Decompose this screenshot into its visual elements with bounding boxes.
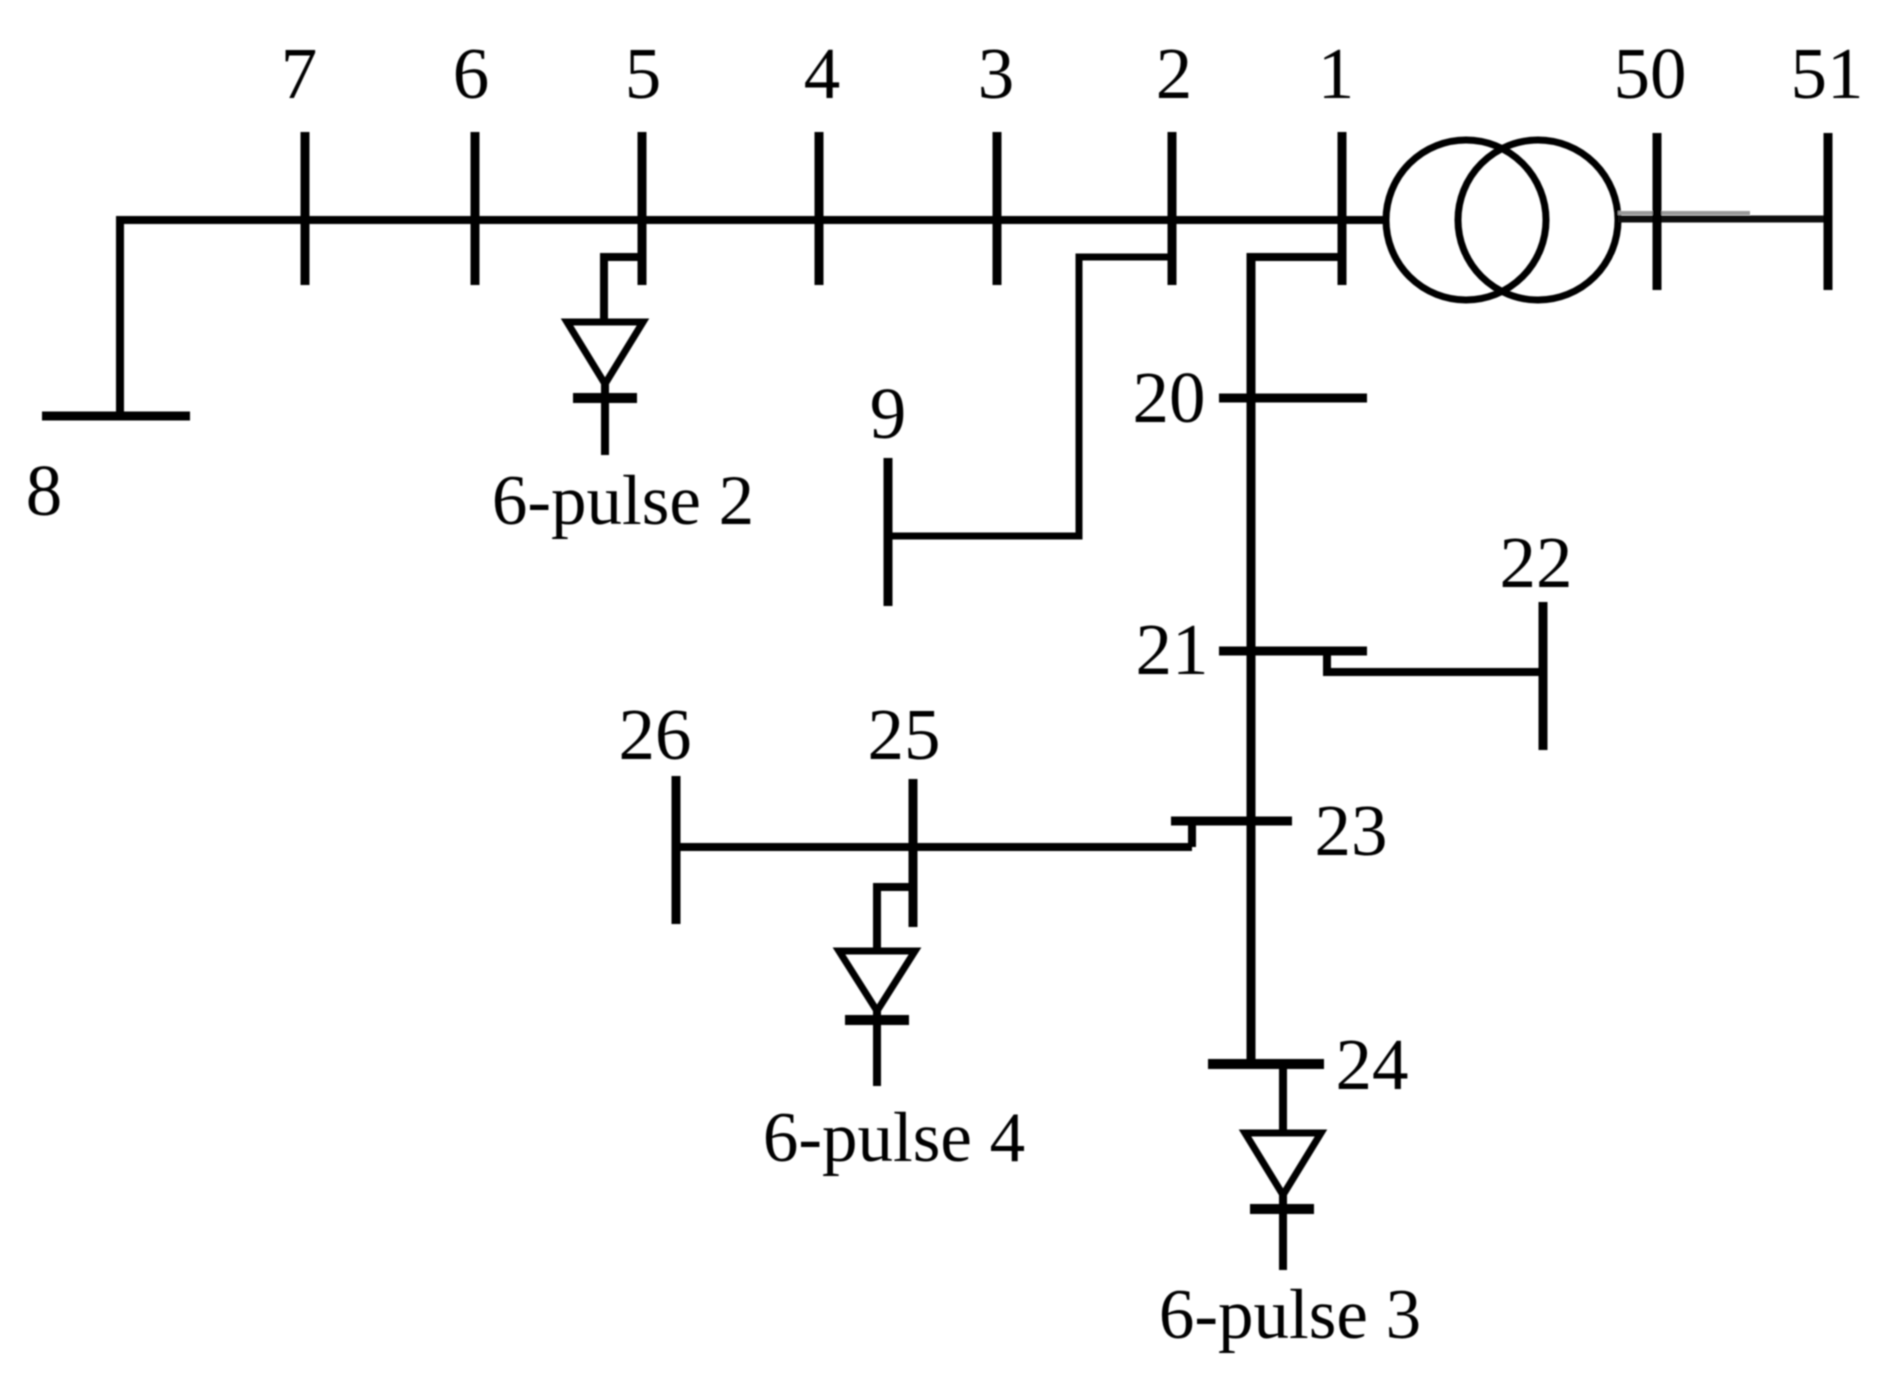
wire main bus line [116,216,1389,224]
bus 23 [1171,817,1292,826]
converter 6-pulse 3 cathode bar [1250,1204,1314,1214]
converter 6-pulse 3 thyristor triangle [1245,1133,1321,1195]
converter 6-pulse 4 thyristor triangle [839,951,915,1011]
wire bus 1 to feeder drop [1251,253,1342,261]
bus 3 [993,132,1002,285]
svg-text:4: 4 [804,33,841,114]
svg-text:23: 23 [1315,790,1388,871]
wire feeder vertical drop [1247,253,1256,1064]
svg-text:6-pulse 2: 6-pulse 2 [492,462,754,540]
svg-text:24: 24 [1336,1024,1409,1105]
bus 21 [1219,647,1367,656]
svg-text:5: 5 [625,33,662,114]
wire bus 21 to bus 22 [1327,651,1543,672]
bus 6 [471,132,480,285]
svg-text:22: 22 [1500,522,1573,603]
converter 6-pulse 4 cathode bar [845,1015,909,1025]
svg-text:3: 3 [978,33,1015,114]
svg-text:21: 21 [1136,609,1209,690]
bus 25 [909,779,918,927]
bus 20 [1219,394,1367,403]
svg-text:51: 51 [1791,33,1864,114]
wire step bus 23 to feeder 25/26 [1188,818,1196,847]
bus 5 [638,132,647,285]
bus 26 bar [672,776,681,924]
converter 6-pulse 2 tail lead [601,378,609,455]
wire feeder bus line 25/26 [676,843,1192,851]
bus 7 [301,132,310,285]
svg-text:6-pulse 4: 6-pulse 4 [763,1099,1025,1177]
bus 4 [815,132,824,285]
svg-text:2: 2 [1156,33,1193,114]
bus 24 [1208,1059,1324,1069]
bus 50 [1653,133,1662,290]
svg-text:20: 20 [1133,357,1206,438]
svg-text:8: 8 [26,450,63,531]
svg-text:7: 7 [281,33,318,114]
svg-text:9: 9 [870,373,907,454]
transformer T1 winding 2 [1458,140,1618,300]
svg-text:6-pulse 3: 6-pulse 3 [1159,1276,1421,1354]
converter 6-pulse 2 thyristor triangle [567,322,643,384]
wire transformer to bus 51 [1618,216,1826,223]
svg-text:25: 25 [868,694,941,775]
wire step from bus 25 to converter [877,887,917,954]
transformer T1 winding 1 [1386,140,1546,300]
svg-text:1: 1 [1318,33,1355,114]
bus 22 bar [1539,602,1548,750]
svg-text:50: 50 [1614,33,1687,114]
wire bus 9 to bus 2 [888,257,1172,536]
wire step from bus 5 to converter [604,257,646,325]
bus 1 [1338,132,1347,285]
wire left bend down to bus 8 [116,216,124,414]
bus 8 bar [42,412,190,421]
wire gray fringe [1618,211,1750,215]
bus 2 [1168,132,1177,285]
converter 6-pulse 2 cathode bar [573,393,637,403]
svg-text:6: 6 [453,33,490,114]
bus 9 bar [884,458,893,606]
bus 51 [1824,133,1833,290]
converter 6-pulse 4 tail lead [873,1006,881,1086]
converter 6-pulse 3 tail lead [1279,1190,1287,1270]
svg-text:26: 26 [619,694,692,775]
wire bus 24 to converter lead [1279,1060,1287,1136]
